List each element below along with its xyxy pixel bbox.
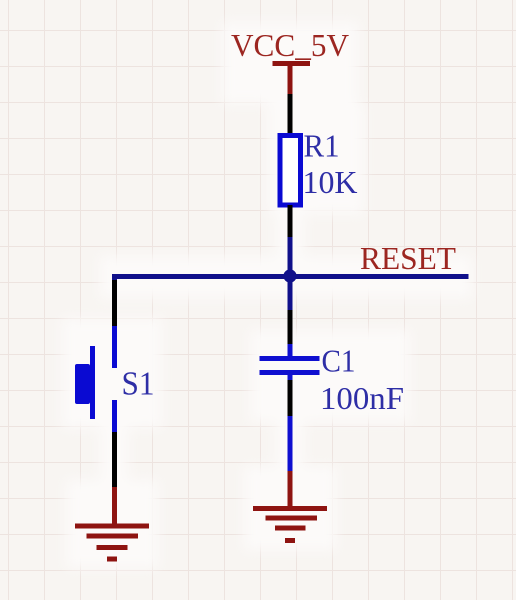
capacitor C1 — [260, 344, 320, 382]
wire — [112, 487, 117, 526]
wire RESET — [112, 274, 469, 279]
svg-text:R1: R1 — [304, 128, 340, 164]
switch S1 — [75, 326, 115, 434]
wire — [288, 310, 293, 346]
svg-text:100nF: 100nF — [320, 380, 404, 416]
ground (left, below S1) — [75, 526, 149, 559]
svg-text:VCC_5V: VCC_5V — [231, 27, 349, 63]
svg-text:10K: 10K — [303, 164, 358, 200]
wire — [288, 237, 293, 312]
wire — [112, 274, 117, 282]
wire — [288, 205, 293, 239]
wire — [288, 471, 293, 508]
ground (right, below C1) — [253, 509, 327, 541]
wire — [288, 94, 293, 135]
svg-text:RESET: RESET — [360, 240, 456, 276]
svg-text:C1: C1 — [322, 343, 356, 379]
wire — [288, 416, 293, 473]
node RESET junction — [283, 269, 296, 282]
power symbol VCC_5V — [273, 64, 311, 97]
svg-text:S1: S1 — [122, 366, 155, 403]
resistor R1 — [280, 136, 301, 206]
wire — [288, 380, 293, 418]
wire — [112, 280, 117, 328]
wire — [112, 432, 117, 489]
